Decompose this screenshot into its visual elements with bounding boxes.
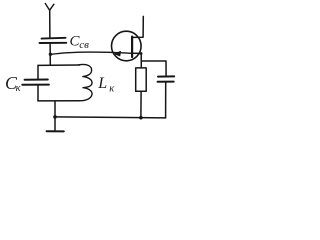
inductor Lk (78, 64, 92, 100)
capacitor C bypass top plate (158, 75, 174, 77)
wire Ccv to tank top (49, 43, 51, 65)
svg-text:к: к (16, 83, 21, 94)
svg-text:св: св (79, 39, 89, 51)
wire tank bottom to ground (54, 101, 56, 131)
capacitor Ccv bottom plate (40, 42, 67, 44)
transistor VT circle (112, 31, 142, 61)
wire resistor bottom lead (140, 91, 142, 118)
capacitor Ck bottom plate (22, 84, 49, 86)
node resistor bottom junction (139, 116, 143, 120)
svg-text:к: к (109, 83, 114, 94)
bottom wire (55, 117, 166, 118)
wire tank left vertical upper (37, 65, 39, 79)
capacitor Ccv top plate (42, 37, 66, 40)
tank top wire (38, 64, 80, 66)
wire tank left vertical lower (37, 85, 39, 101)
capacitor Ck top plate (25, 79, 48, 81)
wire junction to transistor emitter (50, 52, 131, 54)
wire antenna lead (49, 10, 51, 39)
tank bottom wire (38, 100, 80, 102)
ground (47, 130, 64, 132)
node bottom-left junction (53, 115, 57, 119)
transistor VT collector wire (133, 16, 144, 37)
wire emitter branch to bypass capacitor (141, 61, 166, 76)
antenna (45, 4, 54, 11)
capacitor C bypass bottom plate (158, 81, 174, 83)
transistor VT base bar (131, 37, 133, 57)
node emitter corner (140, 52, 143, 55)
wire emitter to right (132, 53, 141, 68)
node junction Ccv/base wire (49, 53, 52, 56)
wire bypass capacitor bottom lead (165, 82, 167, 118)
resistor R body (136, 68, 147, 91)
transistor VT emitter arrow (114, 51, 120, 56)
svg-text:L: L (97, 75, 107, 92)
